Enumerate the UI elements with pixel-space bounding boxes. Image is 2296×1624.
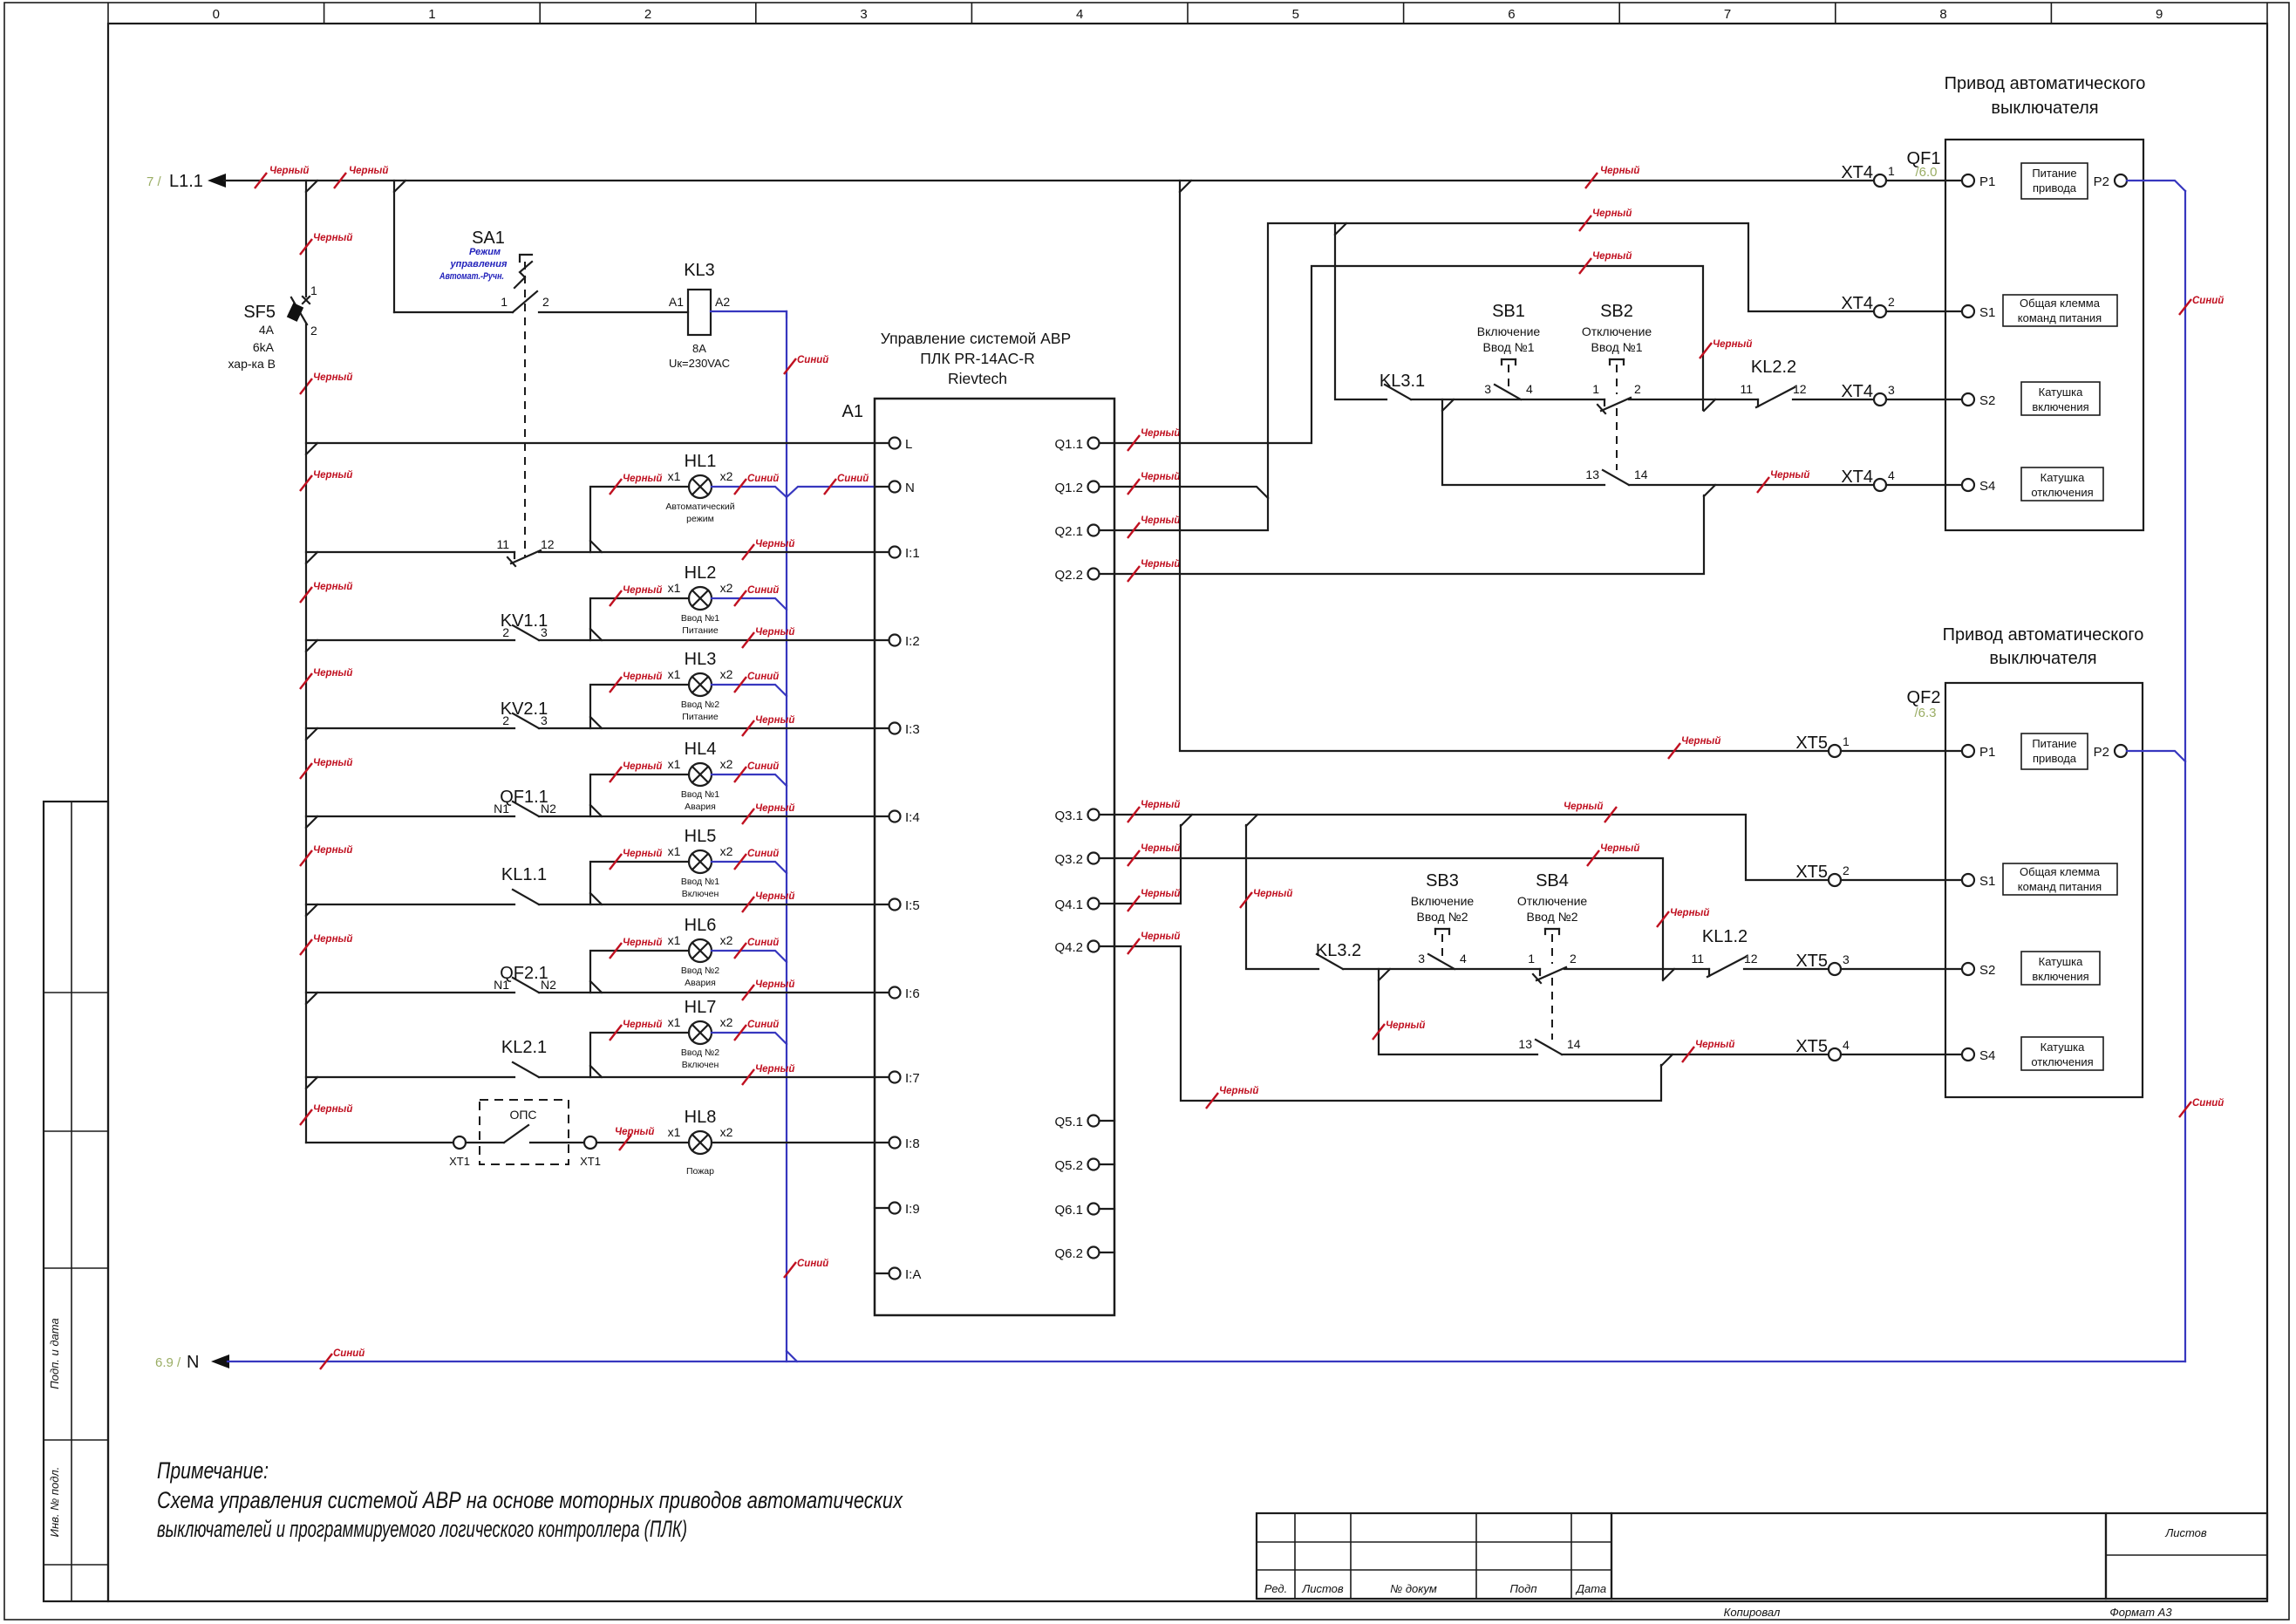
svg-text:1: 1 [1888,164,1895,178]
svg-text:HL7: HL7 [685,998,717,1017]
PLC input pin I:6 [889,987,901,999]
svg-text:выключателя: выключателя [1989,649,2096,668]
wire HL1 black side [590,487,689,552]
contact QF2.1 (NO) [513,978,539,993]
svg-text:HL4: HL4 [685,740,717,759]
svg-text:I:5: I:5 [905,898,920,913]
svg-text:ПЛК PR-14AC-R: ПЛК PR-14AC-R [920,350,1035,367]
wire label slash [255,173,267,188]
svg-text:Ввод №1: Ввод №1 [681,789,719,800]
svg-text:Черный: Черный [623,474,662,484]
junction left bus / row [306,640,317,652]
svg-text:Синий: Синий [747,1020,779,1030]
wire label slash [1373,1024,1385,1040]
PLC input pin I:2 [889,635,901,646]
svg-text:Черный: Черный [349,166,388,176]
wire KL3.1 to SB1/SB2 [1411,399,1604,400]
svg-text:Синий: Синий [797,1259,828,1269]
wire label slash [320,1354,332,1369]
svg-text:14: 14 [1634,467,1648,481]
svg-text:XT5: XT5 [1795,1037,1828,1056]
SA1 mechanism dashed link [524,262,526,556]
junction top bus / SF5 branch [306,181,317,192]
svg-text:Черный: Черный [623,585,662,596]
svg-text:Черный: Черный [1253,889,1292,899]
svg-text:Примечание:: Примечание: [157,1457,269,1484]
svg-text:2: 2 [1843,863,1850,877]
svg-text:Питание: Питание [682,625,719,636]
svg-text:Черный: Черный [313,934,352,945]
QF2 tripping coil box [2021,1037,2103,1070]
svg-text:Черный: Черный [313,372,352,383]
terminal XT4 pin 2 [1874,305,1886,317]
wire HL5 blue side [712,862,787,873]
wire label slash [300,850,312,866]
contact KL3.2 (NO) [1317,954,1343,969]
svg-text:2: 2 [1570,952,1577,966]
svg-text:Ввод №1: Ввод №1 [681,877,719,887]
svg-text:/6.3: /6.3 [1914,706,1936,720]
svg-text:S2: S2 [1979,963,1995,978]
svg-text:P1: P1 [1979,745,1995,760]
svg-text:Черный: Черный [1600,843,1639,854]
wire KL3.1 row [1335,223,1386,399]
PLC module A1 box [875,399,1114,1315]
PLC input pin L [889,438,901,449]
svg-text:KL3.2: KL3.2 [1316,941,1361,960]
svg-text:QF2: QF2 [1907,688,1941,707]
svg-text:P1: P1 [1979,174,1995,189]
svg-text:Черный: Черный [755,1064,794,1075]
svg-text:Катушка: Катушка [2041,1041,2086,1054]
svg-text:Синий: Синий [747,672,779,682]
svg-text:Черный: Черный [1141,843,1180,854]
svg-text:Пожар: Пожар [686,1166,714,1177]
svg-text:I:8: I:8 [905,1136,920,1151]
svg-text:4: 4 [1526,382,1533,396]
drive unit QF2 box [1945,683,2143,1097]
svg-text:Черный: Черный [1592,251,1632,262]
button SB2 actuator [1610,358,1624,360]
relay coil KL3 [688,290,711,335]
svg-text:Черный: Черный [1770,470,1809,481]
svg-text:N1: N1 [494,978,509,992]
title block [1257,1513,1611,1599]
contact KL2.1 (NO) [513,1062,539,1077]
junction Q3.1 / Q4.1 branch [1181,815,1192,826]
svg-text:XT1: XT1 [449,1155,470,1168]
junction left bus / row [306,993,317,1004]
svg-text:3: 3 [1484,382,1491,396]
QF2 pin P2 [2115,745,2127,757]
svg-text:2: 2 [502,713,509,727]
svg-text:1: 1 [501,295,508,309]
svg-text:x2: x2 [720,844,733,858]
svg-text:1: 1 [1843,734,1850,748]
wire input row L [306,442,889,444]
svg-text:KL1.2: KL1.2 [1702,927,1748,946]
svg-text:Синий: Синий [747,849,779,859]
svg-text:Q6.2: Q6.2 [1054,1246,1083,1261]
PLC input pin I:8 [889,1137,901,1149]
QF2 pin S4 [1962,1048,1974,1061]
QF1 pin P1 [1962,174,1974,187]
svg-text:Q2.2: Q2.2 [1054,568,1083,583]
PLC output pin Q4.2 [1088,941,1100,952]
svg-text:x2: x2 [720,581,733,595]
svg-text:KL3: KL3 [684,261,715,280]
junction top bus / QF2 feed branch [1180,181,1191,192]
svg-text:Инв. № подл.: Инв. № подл. [48,1467,61,1538]
svg-text:XT1: XT1 [580,1155,601,1168]
svg-text:SF5: SF5 [243,303,276,322]
wire Q2.2 to trip row [1100,495,1705,574]
QF2 common terminal box [2003,863,2117,895]
wire QF1 P2 blue [2127,181,2185,191]
svg-text:x2: x2 [720,757,733,771]
svg-text:HL8: HL8 [685,1108,717,1127]
PLC input pin I:5 [889,899,901,911]
wire trip row 13-14 (QF2) [1379,969,1537,1054]
svg-text:N: N [905,481,915,495]
svg-text:SB1: SB1 [1492,302,1525,321]
PLC output pin Q3.2 [1088,853,1100,864]
svg-text:12: 12 [1744,952,1758,966]
svg-text:XT5: XT5 [1795,952,1828,971]
svg-text:7 /: 7 / [146,174,162,189]
junction S1 rail / KL3.1 branch [1335,223,1346,235]
svg-text:8A: 8A [692,342,706,355]
svg-text:Ввод №2: Ввод №2 [681,699,719,710]
svg-text:отключения: отключения [2031,486,2093,499]
terminal XT5 pin 2 [1829,874,1841,886]
wire input row I:6 [306,992,514,993]
junction left bus / row [306,443,317,454]
wire from OPS contact [530,1142,584,1143]
wire L1.1 top bus [224,180,1874,181]
svg-text:x2: x2 [720,933,733,947]
PLC input pin I:4 [889,811,901,822]
wire to OPS contact [466,1142,504,1143]
svg-text:S1: S1 [1979,305,1995,320]
svg-text:Черный: Черный [755,979,794,990]
junction top bus / SA1 branch [394,181,405,192]
svg-text:KL1.1: KL1.1 [501,865,547,884]
svg-text:XT5: XT5 [1795,734,1828,753]
wire label slash [784,1262,796,1278]
svg-text:Q3.2: Q3.2 [1054,852,1083,867]
wire input row I:3 [306,727,514,729]
contact KV1.1 (NO) [513,625,539,640]
PLC output pin Q1.1 [1088,438,1100,449]
wire label slash [300,379,312,394]
wire input row I:7 [306,1076,514,1078]
svg-text:Q5.2: Q5.2 [1054,1158,1083,1173]
wire HL4 black side [590,774,689,816]
svg-text:Катушка: Катушка [2039,386,2084,399]
svg-text:L: L [905,437,912,452]
svg-text:Ред.: Ред. [1264,1582,1287,1595]
button SB4 actuator [1545,928,1559,930]
svg-text:Черный: Черный [755,539,794,549]
svg-text:N1: N1 [494,802,509,815]
svg-text:3: 3 [541,625,548,639]
PLC output pin Q3.1 [1088,809,1100,821]
svg-text:I:A: I:A [905,1267,921,1282]
wire KL1.2 to XT5-3 [1744,968,1829,970]
svg-text:XT4: XT4 [1841,382,1873,401]
PLC output pin Q5.2 [1088,1159,1100,1170]
svg-text:Q5.1: Q5.1 [1054,1115,1083,1129]
svg-text:включения: включения [2032,400,2088,413]
drive unit QF1 box [1945,140,2143,530]
svg-text:Ввод №2: Ввод №2 [681,966,719,976]
svg-text:Rievtech: Rievtech [948,370,1007,387]
svg-text:Q1.2: Q1.2 [1054,481,1083,495]
wire HL2 black side [590,598,689,640]
wire HL7 blue side [712,1033,787,1044]
junction Q3.2 rail / close row [1663,969,1674,980]
svg-text:SB3: SB3 [1426,871,1459,890]
svg-text:2: 2 [644,7,651,22]
junction Q1.1 rail / close row [1704,399,1715,411]
svg-text:A1: A1 [842,402,863,421]
svg-text:13: 13 [1585,467,1599,481]
svg-text:Uк=230VAC: Uк=230VAC [669,357,730,370]
svg-text:режим: режим [686,514,714,524]
wire input row I:4 [306,815,514,817]
svg-text:команд питания: команд питания [2018,880,2102,893]
svg-text:Листов: Листов [1301,1582,1344,1595]
PLC input pin I:1 [889,547,901,558]
svg-text:привода: привода [2033,181,2077,194]
svg-text:Схема управления системой АВР: Схема управления системой АВР на основе … [157,1487,903,1513]
svg-text:14: 14 [1567,1037,1581,1051]
terminal XT5 pin 1 [1829,745,1841,757]
svg-text:6: 6 [1508,7,1515,22]
svg-text:x1: x1 [668,844,681,858]
PLC output pin Q6.1 [1088,1204,1100,1215]
svg-text:SB2: SB2 [1600,302,1633,321]
svg-text:x2: x2 [720,667,733,681]
svg-text:x1: x1 [668,757,681,771]
svg-text:Черный: Черный [1670,908,1709,918]
wire HL2 blue side [712,598,787,610]
svg-text:Синий: Синий [333,1348,364,1359]
svg-text:Черный: Черный [1600,166,1639,176]
wire HL7 black side [590,1033,689,1077]
svg-text:Синий: Синий [747,938,779,948]
wire label slash [1657,911,1669,927]
junction HL7 drop / input row [590,1066,602,1077]
wire label slash [2179,299,2191,315]
svg-text:x1: x1 [668,933,681,947]
svg-text:2: 2 [310,324,317,338]
PLC input pin N [889,481,901,493]
svg-text:2: 2 [1888,295,1895,309]
svg-text:5: 5 [1292,7,1299,22]
svg-text:4: 4 [1076,7,1083,22]
PLC output pin Q6.2 [1088,1247,1100,1259]
svg-text:команд питания: команд питания [2018,311,2102,324]
svg-text:Черный: Черный [269,166,309,176]
wire 14 to XT4-4 [1629,484,1874,486]
wire OPS row left [306,1142,453,1143]
wire HL6 black side [590,951,689,993]
svg-text:Черный: Черный [313,668,352,679]
svg-text:Синий: Синий [797,355,828,365]
svg-text:A1: A1 [669,295,684,309]
svg-text:Дата: Дата [1575,1582,1606,1595]
terminal XT5 pin 3 [1829,963,1841,975]
wire HL3 black side [590,685,689,728]
svg-text:Копировал: Копировал [1724,1606,1781,1619]
QF1 tripping coil box [2021,467,2103,501]
svg-text:Ввод №1: Ввод №1 [681,613,719,624]
svg-text:управления: управления [450,259,508,270]
svg-text:Черный: Черный [623,761,662,772]
svg-text:Черный: Черный [755,803,794,814]
svg-text:Общая клемма: Общая клемма [2020,865,2101,878]
svg-text:12: 12 [1793,382,1807,396]
junction left bus / row [306,728,317,740]
svg-text:2: 2 [1634,382,1641,396]
svg-text:Черный: Черный [623,849,662,859]
junction close-circuit / trip branch [1442,399,1454,411]
wire Q4.1 up to Q3.1 [1100,825,1182,904]
wire QF2 P2 blue [2127,751,2185,761]
svg-text:Q2.1: Q2.1 [1054,524,1083,539]
wire SB4 to KL1.2 [1564,968,1709,970]
svg-text:x1: x1 [668,1015,681,1029]
svg-text:9: 9 [2156,7,2163,22]
svg-text:Привод автоматического: Привод автоматического [1945,74,2146,93]
wire label slash [300,239,312,255]
svg-text:6kA: 6kA [253,340,275,354]
svg-text:Ввод №1: Ввод №1 [1483,340,1535,354]
svg-text:Включен: Включен [682,1060,719,1070]
svg-text:Черный: Черный [1141,931,1180,942]
svg-text:Черный: Черный [755,715,794,726]
svg-text:3: 3 [860,7,867,22]
svg-text:Ввод №2: Ввод №2 [1417,910,1468,924]
svg-text:Черный: Черный [1681,736,1720,747]
svg-text:x1: x1 [668,581,681,595]
svg-text:Синий: Синий [2192,1098,2224,1109]
contact KL3.1 (NO) [1385,385,1411,399]
wire label slash [300,587,312,603]
PLC output pin Q2.1 [1088,525,1100,536]
svg-text:Черный: Черный [1141,800,1180,810]
svg-text:Синий: Синий [2192,296,2224,306]
svg-text:Черный: Черный [1141,889,1180,899]
svg-text:Ввод №2: Ввод №2 [681,1047,719,1058]
svg-text:I:2: I:2 [905,634,920,649]
svg-text:Черный: Черный [313,845,352,856]
QF1 pin S1 [1962,305,1974,317]
svg-text:/6.0: /6.0 [1915,165,1937,180]
wire blue right bus [2184,191,2186,1361]
svg-text:XT4: XT4 [1841,163,1873,182]
wire label slash [1240,892,1252,908]
svg-text:Черный: Черный [313,470,352,481]
terminal XT4 pin 1 [1874,174,1886,187]
wire HL8 to I:8 [712,1142,889,1143]
wire SB2 to KL2.2 [1629,399,1758,400]
svg-text:11: 11 [1740,382,1753,396]
terminal XT4 pin 4 [1874,479,1886,491]
svg-text:KL3.1: KL3.1 [1380,372,1425,391]
wire input row I:5 [306,904,514,905]
wire input row I:2 [306,639,514,641]
wire HL6 blue side [712,951,787,962]
svg-text:2: 2 [502,625,509,639]
svg-text:N2: N2 [541,802,556,815]
svg-text:KL2.1: KL2.1 [501,1038,547,1057]
svg-text:Черный: Черный [313,758,352,768]
svg-text:Автоматический: Автоматический [665,502,734,512]
svg-text:Черный: Черный [623,938,662,948]
wire KL2.2 to XT4-3 [1793,399,1874,400]
QF2 pin S2 [1962,963,1974,975]
wire HL4 blue side [712,774,787,786]
left document strip [44,802,108,1601]
svg-text:Подп. и дата: Подп. и дата [48,1318,61,1389]
svg-text:HL1: HL1 [685,452,717,471]
PLC input pin I:A [889,1268,901,1279]
svg-text:Q3.1: Q3.1 [1054,809,1083,823]
svg-text:Черный: Черный [1564,802,1603,812]
svg-text:Черный: Черный [623,1020,662,1030]
svg-text:ОПС: ОПС [509,1108,536,1122]
svg-text:Ввод №2: Ввод №2 [1527,910,1578,924]
contact SA1 11-12 (NC) [514,552,515,558]
svg-text:XT4: XT4 [1841,467,1873,487]
svg-text:x1: x1 [668,1125,681,1139]
wire label slash [1700,343,1712,358]
PLC output pin Q2.2 [1088,569,1100,580]
button SB3 actuator [1435,928,1449,930]
svg-text:4A: 4A [259,323,275,337]
svg-text:I:3: I:3 [905,722,920,737]
svg-text:4: 4 [1460,952,1467,966]
terminal XT1 left [453,1136,466,1149]
svg-text:KL2.2: KL2.2 [1751,358,1796,377]
svg-text:L1.1: L1.1 [169,172,203,191]
svg-text:Катушка: Катушка [2039,955,2084,968]
svg-text:N: N [187,1353,199,1372]
button SB1 actuator [1502,358,1516,360]
svg-text:Черный: Черный [1592,208,1632,219]
svg-text:HL3: HL3 [685,650,717,669]
svg-text:Черный: Черный [313,582,352,592]
contact KL1.1 (NO) [513,890,539,904]
svg-text:Черный: Черный [1141,428,1180,439]
wire Q1.1 to upper rail [1100,266,1704,443]
svg-text:0: 0 [213,7,220,22]
junction Q3.1 / KL3.2 branch [1246,815,1257,826]
svg-text:1: 1 [1528,952,1535,966]
svg-text:7: 7 [1724,7,1731,22]
svg-text:Черный: Черный [1713,339,1752,350]
QF2 motor supply box [2021,734,2088,769]
svg-text:S1: S1 [1979,874,1995,889]
svg-text:Управление системой АВР: Управление системой АВР [881,330,1071,347]
wire KL3.2 row [1246,825,1318,969]
svg-text:Черный: Черный [1141,515,1180,526]
svg-text:Черный: Черный [1141,472,1180,482]
svg-text:Ввод №1: Ввод №1 [1591,340,1643,354]
